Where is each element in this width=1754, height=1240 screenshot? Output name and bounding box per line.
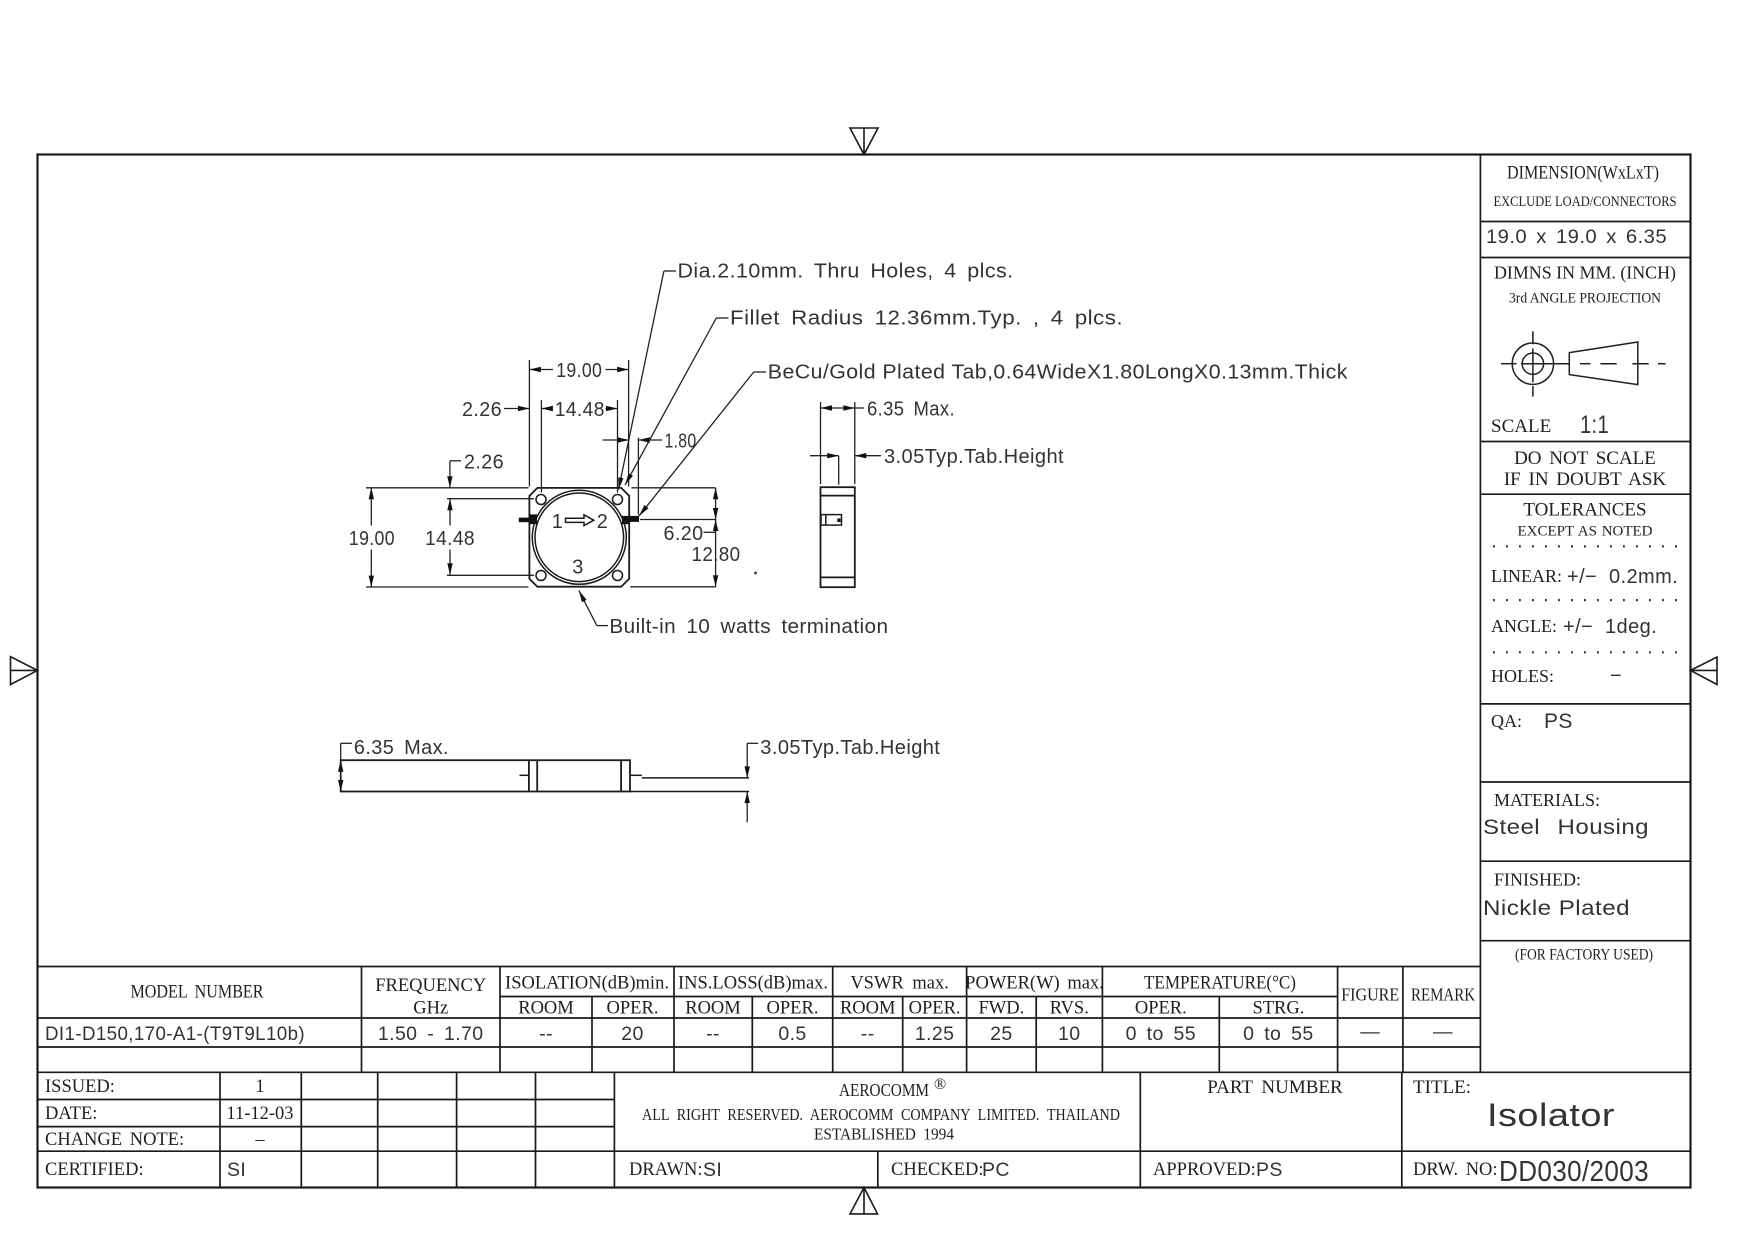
svg-text:FINISHED:: FINISHED:	[1494, 870, 1581, 890]
svg-text:—: —	[1433, 1021, 1453, 1043]
svg-text:POWER(W) max.: POWER(W) max.	[965, 974, 1104, 994]
svg-text:3.05Typ.Tab.Height: 3.05Typ.Tab.Height	[760, 737, 940, 759]
svg-text:®: ®	[934, 1076, 946, 1093]
svg-text:EXCEPT AS NOTED: EXCEPT AS NOTED	[1517, 524, 1652, 540]
svg-text:0.5: 0.5	[778, 1023, 806, 1045]
svg-text:MATERIALS:: MATERIALS:	[1494, 790, 1600, 810]
svg-text:ALL RIGHT RESERVED. AEROCOMM C: ALL RIGHT RESERVED. AEROCOMM COMPANY LIM…	[642, 1105, 1120, 1124]
port path arrow 1 to 2	[552, 511, 609, 579]
mounting hole bottom-right	[613, 571, 623, 581]
leader termination note	[579, 590, 608, 625]
dimension 6.35 side view	[821, 402, 865, 484]
svg-text:2.26: 2.26	[462, 399, 502, 421]
svg-text:6.20: 6.20	[664, 523, 704, 545]
svg-text:Built-in 10 watts termination: Built-in 10 watts termination	[609, 616, 888, 638]
svg-text:25: 25	[990, 1023, 1013, 1045]
leader fillet radius note	[625, 318, 729, 485]
svg-text:TOLERANCES: TOLERANCES	[1523, 500, 1646, 521]
svg-text:DD030/2003: DD030/2003	[1499, 1156, 1649, 1188]
svg-text:+/− 0.2mm.: +/− 0.2mm.	[1567, 566, 1678, 588]
mounting hole bottom-left	[536, 571, 546, 581]
svg-text:HOLES:: HOLES:	[1491, 666, 1554, 686]
svg-text:OPER.: OPER.	[767, 999, 819, 1019]
svg-text:Fillet Radius 12.36mm.Typ. , 4: Fillet Radius 12.36mm.Typ. , 4 plcs.	[730, 308, 1123, 330]
company block	[629, 1076, 1649, 1188]
dimension 14.48 horizontal	[541, 400, 617, 493]
dimension 6.20 and 12.80	[630, 488, 715, 587]
svg-text:DRAWN:: DRAWN:	[629, 1160, 703, 1180]
svg-text:14.48: 14.48	[425, 528, 475, 550]
svg-text:ROOM: ROOM	[685, 999, 741, 1019]
svg-text:SI: SI	[227, 1159, 246, 1181]
svg-text:CHECKED:: CHECKED:	[891, 1160, 984, 1180]
svg-text:14.48: 14.48	[555, 399, 605, 421]
svg-text:2: 2	[597, 511, 609, 533]
svg-text:FWD.: FWD.	[979, 999, 1025, 1019]
svg-text:11-12-03: 11-12-03	[226, 1104, 293, 1124]
svg-text:PC: PC	[982, 1159, 1010, 1181]
svg-text:6.35 Max.: 6.35 Max.	[354, 737, 449, 759]
svg-text:RVS.: RVS.	[1050, 999, 1089, 1019]
svg-text:1.50 - 1.70: 1.50 - 1.70	[378, 1023, 484, 1045]
svg-text:OPER.: OPER.	[909, 999, 961, 1019]
svg-text:DRW. NO:: DRW. NO:	[1413, 1160, 1498, 1180]
svg-text:FREQUENCY: FREQUENCY	[375, 976, 486, 996]
leader becu tab note	[639, 372, 766, 516]
spec table headers	[131, 974, 1476, 1019]
svg-text:20: 20	[621, 1023, 644, 1045]
svg-text:ANGLE:: ANGLE:	[1491, 616, 1557, 636]
svg-text:–: –	[254, 1130, 265, 1150]
dimension 14.48 vertical	[447, 499, 534, 576]
svg-text:DO NOT SCALE: DO NOT SCALE	[1514, 448, 1656, 469]
svg-text:QA:: QA:	[1491, 711, 1522, 731]
dimension 19.00 vertical	[366, 488, 529, 587]
port tab right	[622, 516, 639, 524]
dimension 3.05 bottom view	[747, 743, 758, 822]
svg-text:+/− 1deg.: +/− 1deg.	[1563, 616, 1657, 638]
svg-text:TITLE:: TITLE:	[1413, 1077, 1471, 1098]
svg-text:ROOM: ROOM	[518, 999, 574, 1019]
svg-text:PS: PS	[1544, 710, 1573, 733]
svg-text:1.25: 1.25	[915, 1023, 955, 1045]
registration mark right	[1691, 657, 1718, 685]
svg-text:10: 10	[1058, 1023, 1081, 1045]
dimension header text	[1486, 164, 1677, 307]
svg-text:1: 1	[552, 511, 564, 533]
svg-text:TEMPERATURE(°C): TEMPERATURE(°C)	[1144, 974, 1296, 994]
svg-text:AEROCOMM: AEROCOMM	[839, 1080, 929, 1100]
svg-text:Nickle Plated: Nickle Plated	[1483, 897, 1630, 920]
svg-text:ROOM: ROOM	[840, 999, 896, 1019]
svg-text:DIMENSION(WxLxT): DIMENSION(WxLxT)	[1507, 164, 1659, 184]
svg-text:--: --	[706, 1023, 720, 1045]
svg-text:CERTIFIED:: CERTIFIED:	[45, 1160, 144, 1180]
svg-text:IF IN DOUBT ASK: IF IN DOUBT ASK	[1504, 469, 1667, 490]
registration mark top	[850, 128, 878, 155]
svg-text:Dia.2.10mm. Thru Holes, 4 plcs: Dia.2.10mm. Thru Holes, 4 plcs.	[678, 261, 1014, 283]
mounting hole top-left	[536, 495, 546, 505]
svg-text:GHz: GHz	[413, 999, 448, 1019]
title block grid right column	[1480, 155, 1690, 1073]
svg-text:—: —	[1360, 1021, 1380, 1043]
issue block labels	[45, 1077, 294, 1181]
tolerance values	[1491, 566, 1678, 733]
port tab left	[519, 514, 537, 524]
svg-text:19.00: 19.00	[556, 360, 602, 382]
svg-text:(FOR FACTORY USED): (FOR FACTORY USED)	[1515, 947, 1653, 964]
dimension 2.26 horizontal	[504, 408, 529, 410]
svg-text:PART NUMBER: PART NUMBER	[1207, 1077, 1343, 1098]
dimension 6.35 bottom view	[341, 743, 352, 791]
svg-text:−: −	[1610, 665, 1622, 687]
svg-text:LINEAR:: LINEAR:	[1491, 566, 1562, 586]
svg-text:MODEL NUMBER: MODEL NUMBER	[131, 983, 265, 1003]
registration mark left	[11, 657, 38, 685]
materials section	[1483, 790, 1653, 964]
svg-text:SI: SI	[703, 1159, 722, 1181]
dimension 1.80	[602, 438, 662, 515]
svg-text:12.80: 12.80	[692, 544, 741, 566]
svg-text:VSWR max.: VSWR max.	[850, 974, 949, 994]
side view body	[821, 487, 855, 587]
svg-text:1: 1	[255, 1077, 264, 1097]
spec table grid	[38, 967, 1691, 1073]
svg-text:ISSUED:: ISSUED:	[45, 1077, 115, 1097]
svg-text:CHANGE NOTE:: CHANGE NOTE:	[45, 1130, 184, 1150]
svg-text:ESTABLISHED 1994: ESTABLISHED 1994	[814, 1125, 954, 1144]
side view tab	[821, 515, 842, 526]
svg-text:EXCLUDE LOAD/CONNECTORS: EXCLUDE LOAD/CONNECTORS	[1494, 194, 1677, 210]
svg-text:6.35 Max.: 6.35 Max.	[867, 398, 955, 420]
svg-text:0 to 55: 0 to 55	[1126, 1023, 1196, 1045]
svg-text:Isolator: Isolator	[1487, 1097, 1615, 1133]
scale note	[1491, 411, 1666, 540]
svg-text:DI1-D150,170-A1-(T9T9L10b): DI1-D150,170-A1-(T9T9L10b)	[45, 1023, 305, 1045]
svg-text:STRG.: STRG.	[1252, 999, 1304, 1019]
svg-text:BeCu/Gold Plated Tab,0.64WideX: BeCu/Gold Plated Tab,0.64WideX1.80LongX0…	[768, 362, 1349, 384]
svg-text:REMARK: REMARK	[1411, 985, 1475, 1005]
svg-text:PS: PS	[1256, 1159, 1283, 1181]
bottom profile view body	[341, 760, 630, 791]
svg-text:SCALE: SCALE	[1491, 416, 1551, 437]
svg-text:INS.LOSS(dB)max.: INS.LOSS(dB)max.	[678, 974, 828, 994]
dimension 2.26 vertical left	[450, 461, 461, 488]
svg-text:Steel Housing: Steel Housing	[1483, 816, 1649, 839]
svg-text:DIMNS IN MM. (INCH): DIMNS IN MM. (INCH)	[1494, 263, 1676, 284]
projection symbol	[1501, 331, 1666, 396]
svg-text:--: --	[861, 1023, 875, 1045]
leader thru holes note	[619, 271, 677, 490]
svg-text:19.00: 19.00	[349, 528, 395, 550]
svg-text:1:1: 1:1	[1580, 411, 1609, 439]
svg-text:19.0 x 19.0 x 6.35: 19.0 x 19.0 x 6.35	[1486, 226, 1667, 248]
svg-text:2.26: 2.26	[464, 451, 504, 473]
front view circulator rings	[532, 490, 626, 584]
mounting hole top-right	[613, 495, 623, 505]
registration mark bottom	[850, 1188, 878, 1214]
svg-text:OPER.: OPER.	[607, 999, 659, 1019]
svg-text:--: --	[539, 1023, 553, 1045]
svg-text:0 to 55: 0 to 55	[1243, 1023, 1313, 1045]
svg-text:OPER.: OPER.	[1135, 999, 1187, 1019]
spec table data row	[45, 1021, 1453, 1045]
dimension 19.00 horizontal	[529, 360, 628, 487]
tolerance dotted rules	[1493, 546, 1680, 652]
svg-text:DATE:: DATE:	[45, 1104, 97, 1124]
svg-text:3.05Typ.Tab.Height: 3.05Typ.Tab.Height	[884, 446, 1064, 468]
svg-text:ISOLATION(dB)min.: ISOLATION(dB)min.	[505, 974, 669, 994]
bottom profile tab	[520, 775, 750, 791]
svg-text:3: 3	[572, 557, 584, 579]
issue block grid	[38, 1072, 1691, 1187]
front view body outline	[529, 488, 629, 587]
svg-text:APPROVED:: APPROVED:	[1153, 1160, 1256, 1180]
svg-text:FIGURE: FIGURE	[1341, 985, 1399, 1005]
dimension 3.05 side view	[810, 456, 881, 485]
svg-text:3rd ANGLE PROJECTION: 3rd ANGLE PROJECTION	[1509, 291, 1661, 307]
